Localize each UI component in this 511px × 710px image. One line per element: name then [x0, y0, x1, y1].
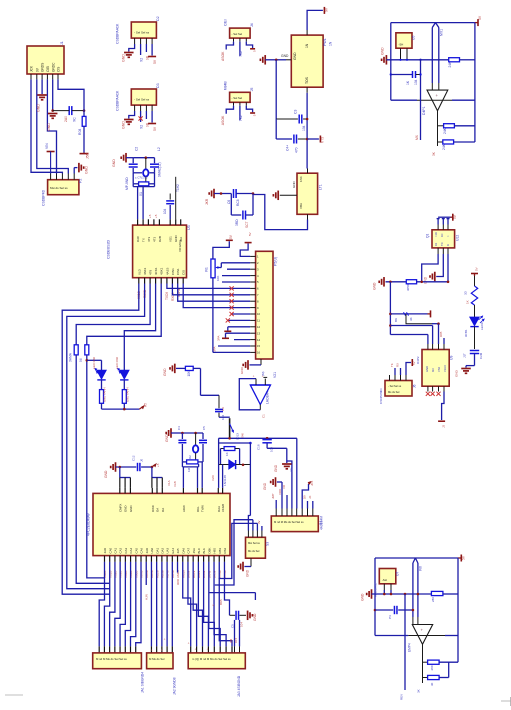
- svg-text:JCK: JCK: [30, 65, 34, 72]
- P5 gnd: [250, 359, 262, 365]
- svg-text:- Sel Sel: - Sel Sel: [232, 96, 243, 100]
- svg-text:5V: 5V: [475, 267, 479, 271]
- svg-text:J1: J1: [60, 41, 64, 45]
- S4 pin: [291, 509, 293, 517]
- svg-text:BK: BK: [394, 318, 398, 322]
- svg-text:4SK1: 4SK1: [160, 267, 164, 275]
- S3 gnd: [244, 558, 251, 566]
- wire U3.3 bundle: [76, 284, 150, 345]
- LED D4: [115, 357, 129, 380]
- connector P2: [42, 179, 83, 206]
- svg-text:M Ms ds Sel: M Ms ds Sel: [149, 657, 165, 661]
- S4 pin: [301, 509, 303, 517]
- U9 bottom pin: [443, 386, 445, 391]
- power bar R12: [471, 267, 479, 276]
- svg-text:D3: D3: [156, 83, 160, 88]
- power bar r12: [224, 330, 231, 332]
- svg-text:GND: GND: [124, 506, 128, 512]
- wire D3.1: [129, 111, 135, 119]
- power bar U9: [438, 421, 445, 428]
- wire bus3: [372, 593, 432, 595]
- svg-text:D4P1: D4P1: [422, 106, 426, 115]
- svg-text:X1A: X1A: [167, 480, 171, 486]
- J6 pin: [394, 375, 396, 381]
- U4 top pin: [196, 488, 200, 512]
- svg-text:C5: C5: [202, 426, 206, 430]
- node S: [389, 322, 440, 326]
- svg-text:GND: GND: [165, 434, 169, 442]
- regulator U8: [292, 173, 323, 214]
- svg-text:10K: 10K: [216, 276, 220, 281]
- U3 top pin: [152, 219, 156, 242]
- potentiometer W1: [205, 259, 221, 281]
- resistor R2: [133, 173, 154, 196]
- wire U4 to JA3: [204, 562, 215, 653]
- svg-text:D9: D9: [303, 495, 307, 499]
- label plus marks: [148, 214, 158, 218]
- node J: [86, 359, 89, 362]
- svg-text:C6: C6: [227, 200, 231, 204]
- U3 bottom pin: [154, 267, 158, 283]
- ground S4 GND: [263, 477, 282, 495]
- wire left rail: [390, 23, 392, 101]
- svg-text:DA1: DA1: [155, 547, 159, 553]
- node Q: [389, 281, 449, 284]
- svg-text:Ms ds Sel: Ms ds Sel: [388, 390, 400, 394]
- svg-text:D2: D2: [156, 16, 160, 21]
- S3 pin: [261, 531, 263, 538]
- svg-text:DBK: DBK: [207, 547, 211, 553]
- wire xtal rail: [133, 157, 154, 159]
- svg-text:JA3 4SIBGND: JA3 4SIBGND: [237, 675, 241, 697]
- P2 pin: [61, 174, 63, 180]
- svg-text:D2B: D2B: [158, 236, 162, 242]
- wire corner step1: [215, 520, 253, 585]
- svg-text:CA2: CA2: [119, 547, 123, 553]
- wire U3 to LCD: [178, 284, 250, 302]
- wire D2.1: [129, 44, 135, 52]
- wire U4 to JA3: [219, 562, 232, 653]
- wire speaker out: [259, 405, 261, 410]
- U3 top pin: [174, 219, 178, 242]
- wire S3.2: [252, 520, 254, 531]
- LCD connector P5: [256, 251, 278, 359]
- svg-text:T1H2: T1H2: [176, 184, 180, 192]
- U4 top pin: [156, 488, 160, 512]
- U8 gnd pin: [280, 194, 297, 196]
- wire to LED1: [87, 360, 102, 370]
- U8 out pin: [307, 214, 309, 219]
- svg-text:TXD9: TXD9: [165, 292, 169, 300]
- label ASOK J4: [221, 51, 225, 61]
- resistor R6: [448, 58, 475, 68]
- svg-text:H8S: H8S: [213, 548, 217, 554]
- svg-text:X2: X2: [140, 125, 144, 129]
- wire rail2 left: [374, 558, 376, 636]
- wire U4 to JA2: [161, 562, 163, 653]
- wire xtal2 down3: [201, 462, 203, 488]
- resistor R12 zigzag: [464, 276, 478, 305]
- svg-text:+: +: [163, 638, 167, 640]
- U3 top pin: [158, 219, 162, 242]
- svg-text:m (Q) M nd M Ms ds Sel Sel ss: m (Q) M nd M Ms ds Sel Sel ss: [192, 657, 231, 661]
- wire D3.3: [145, 111, 149, 127]
- S4 pin: [312, 509, 314, 517]
- wire stub REV: [400, 594, 406, 700]
- svg-text:5: 5: [253, 50, 257, 52]
- svg-text:XKGB: XKGB: [221, 504, 225, 512]
- U4 top pin: [161, 488, 165, 512]
- wire J4.3 hook: [246, 42, 252, 48]
- svg-text:-SH: -SH: [399, 43, 404, 47]
- wire J6.4 pwr: [406, 363, 411, 376]
- svg-text:16: 16: [257, 351, 261, 355]
- wire rail2 bottom: [375, 635, 408, 637]
- svg-text:CA4: CA4: [129, 547, 133, 553]
- label NB-GND: [125, 177, 129, 190]
- svg-text:4SA: 4SA: [192, 548, 196, 554]
- J1 pin 1: [30, 65, 34, 79]
- crystal Y1: [135, 158, 149, 182]
- svg-text:+: +: [252, 375, 256, 377]
- wire U4 to JA1: [110, 562, 115, 653]
- svg-text:CA0: CA0: [108, 547, 112, 553]
- svg-text:1M: 1M: [187, 467, 191, 472]
- wire D3.2: [140, 111, 144, 129]
- svg-text:104: 104: [414, 79, 418, 85]
- wire IR.2: [390, 326, 432, 345]
- wire R3 down: [76, 355, 109, 583]
- U4 top pin: [151, 488, 155, 512]
- wire xtal2 rail: [182, 432, 203, 434]
- U1 gnd pin: [286, 59, 291, 61]
- wire S4.3: [282, 484, 287, 509]
- wire xtal2 down1: [182, 467, 184, 488]
- P5 pin: [250, 325, 260, 329]
- wire U4 to JA1: [120, 562, 125, 653]
- P2 pin: [50, 174, 52, 180]
- U7 pins: [384, 584, 391, 594]
- svg-text:TD: TD: [440, 242, 444, 246]
- D2 pin: [134, 38, 136, 44]
- U12 top pin: [442, 225, 444, 230]
- wire S4.6 pwr: [302, 484, 308, 509]
- wire U4 to JA2: [156, 562, 158, 653]
- svg-text:GNDC: GNDC: [51, 62, 55, 72]
- svg-text:10K: 10K: [187, 370, 191, 377]
- svg-text:AMMBAIC: AMMBAIC: [374, 582, 378, 597]
- svg-text:GND: GND: [373, 282, 377, 290]
- power arrow S4: [308, 480, 314, 486]
- U4 top pin: [129, 488, 133, 512]
- svg-text:+: +: [206, 648, 210, 650]
- svg-text:14: 14: [257, 338, 261, 342]
- D2 pin: [145, 38, 147, 44]
- svg-text:4T3: 4T3: [152, 236, 156, 242]
- wire U4 to JA1: [130, 562, 135, 653]
- svg-text:CSDBP4D: CSDBP4D: [42, 189, 46, 206]
- U4 bottom pin: [150, 547, 154, 578]
- node C: [275, 59, 278, 62]
- svg-text:C4+: C4+: [286, 145, 290, 151]
- svg-text:C12: C12: [132, 455, 136, 461]
- U3 bottom pin: [149, 269, 153, 283]
- wire U3.1 bundle: [62, 284, 139, 595]
- wire U4 to JA1: [115, 562, 120, 653]
- connector D2: [116, 16, 161, 44]
- svg-text:U12: U12: [456, 235, 460, 241]
- wire mic bus: [386, 59, 448, 61]
- ground XTAL2 GND: [165, 428, 182, 442]
- wire U3.4 to LED2: [124, 284, 155, 371]
- svg-text:AM: AM: [229, 638, 233, 643]
- node M: [249, 442, 252, 445]
- wire left bus: [275, 60, 277, 119]
- capacitor C9: [390, 71, 422, 85]
- J6 pin: [400, 375, 402, 381]
- wire U4 to JA3: [198, 562, 208, 653]
- U3 top pin: [179, 219, 183, 242]
- svg-text:C2M: C2M: [479, 352, 483, 359]
- svg-text:W8: W8: [419, 566, 423, 571]
- capacitor C18: [257, 437, 287, 461]
- node O: [242, 464, 245, 467]
- wire U12.3: [447, 254, 449, 282]
- microcontroller U3: [107, 225, 192, 278]
- svg-text:GND: GND: [455, 369, 459, 377]
- svg-text:CIEI: CIEI: [46, 66, 50, 72]
- P5 pin: [250, 280, 259, 284]
- label 9MHZ: [158, 162, 162, 177]
- P5 pin: [250, 274, 259, 278]
- power bar P5: [245, 232, 252, 242]
- power bar row2: [428, 310, 431, 317]
- svg-text:PW1: PW1: [323, 38, 327, 46]
- svg-text:UA0: UA0: [150, 547, 154, 553]
- node P: [119, 466, 154, 469]
- wire U4 to JA1: [104, 562, 109, 653]
- resistor R4: [79, 345, 89, 362]
- svg-text:D2: D2: [188, 455, 192, 459]
- ground C15 GND: [455, 369, 471, 378]
- wire U4 vcc group2: [152, 467, 162, 488]
- svg-text:TX: TX: [142, 238, 146, 242]
- ground U7 GND: [361, 589, 372, 601]
- svg-text:U7: U7: [396, 572, 400, 576]
- connector D3: [116, 83, 161, 111]
- svg-text:3K: 3K: [432, 151, 436, 156]
- svg-text:JA2 9GND8: JA2 9GND8: [173, 677, 177, 695]
- J1 pin 4: [46, 66, 50, 80]
- J4 pin: [239, 38, 241, 42]
- U3 top pin: [169, 219, 173, 242]
- svg-text:9MHZ(11): 9MHZ(11): [158, 162, 162, 177]
- svg-text:104: 104: [270, 447, 274, 452]
- svg-text:TOS: TOS: [305, 76, 309, 84]
- node H: [399, 59, 408, 61]
- U9 top pin: [438, 344, 440, 350]
- U3 inner label: [178, 240, 182, 252]
- svg-text:CSDBPA4CK: CSDBPA4CK: [116, 90, 120, 111]
- svg-text:+: +: [436, 93, 439, 98]
- ground D2 GND: [122, 53, 134, 63]
- U3 bottom pin: [137, 268, 141, 283]
- J1 pin 6: [57, 67, 61, 80]
- P2 pin: [73, 174, 75, 180]
- wire J6.3: [396, 363, 401, 375]
- svg-text:L2: L2: [157, 147, 161, 151]
- U4 bottom pin: [181, 547, 185, 578]
- svg-text:+: +: [160, 649, 164, 651]
- connector S3: [246, 537, 270, 558]
- resistor R3: [69, 345, 79, 362]
- svg-text:CIS: CIS: [182, 270, 186, 275]
- J4 pin: [233, 38, 235, 42]
- svg-text:SCT: SCT: [245, 221, 249, 228]
- ground R5 GND: [163, 364, 175, 376]
- U4 bottom pin: [192, 548, 196, 578]
- svg-text:J4: J4: [250, 23, 254, 27]
- wire U1 gnd: [276, 54, 289, 60]
- wire S3.4: [257, 520, 262, 530]
- U12 top pin: [437, 225, 439, 230]
- wire S3.3: [256, 523, 258, 530]
- wire U4 stub2: [176, 562, 180, 585]
- U4 bottom pin: [213, 548, 217, 578]
- svg-text:J0: J0: [140, 459, 144, 463]
- wire inv stub: [415, 59, 422, 140]
- svg-text:GND: GND: [263, 482, 267, 490]
- wire J5.2: [239, 106, 243, 121]
- ground row1 GND: [373, 277, 385, 290]
- svg-text:- Sel Sel ss: - Sel Sel ss: [134, 98, 150, 102]
- sensor U12: [426, 230, 460, 248]
- svg-text:CSDBPMD: CSDBPMD: [379, 388, 383, 404]
- J1 pin 5: [51, 62, 55, 79]
- J5 pin: [233, 102, 235, 106]
- svg-text:5V: 5V: [412, 361, 416, 365]
- U4 bottom pin: [223, 547, 227, 578]
- no-connect X: [230, 306, 234, 310]
- J6 pin: [405, 375, 407, 381]
- resistor R9: [182, 448, 203, 472]
- wire D2.2: [140, 44, 144, 62]
- U4 bottom pin: [124, 547, 128, 578]
- svg-text:5V: 5V: [153, 59, 157, 64]
- node A: [51, 109, 54, 112]
- capacitor C12: [199, 426, 207, 448]
- svg-text:VO12OA: VO12OA: [178, 240, 182, 252]
- power bar pot: [226, 234, 233, 240]
- power bar J6: [412, 359, 416, 366]
- wire J1.5: [52, 79, 54, 110]
- wire S4.7: [303, 495, 308, 509]
- svg-text:GND: GND: [122, 121, 126, 129]
- wire U4 to JA1: [125, 562, 130, 653]
- svg-text:4PC2E8DMAV: 4PC2E8DMAV: [87, 512, 91, 536]
- node L: [228, 437, 268, 440]
- wire S4.2 gnd: [277, 482, 282, 509]
- P5 pin: [250, 351, 260, 355]
- no-connect X: [139, 116, 143, 120]
- svg-text:5V: 5V: [229, 234, 233, 239]
- regulator U1: [291, 35, 332, 87]
- J6 pin: [389, 375, 391, 381]
- capacitor C15: [463, 327, 484, 366]
- resistor R14: [423, 660, 459, 670]
- transistor Q2: [230, 418, 245, 440]
- wire opamp2 out: [417, 644, 423, 693]
- wire P5.13 pwr: [226, 333, 251, 337]
- border mark BL: [5, 694, 23, 696]
- wire U3 to LCD: [167, 284, 250, 289]
- resistor R5: [176, 366, 201, 376]
- power bar sensor: [451, 214, 458, 221]
- wire P5.10: [232, 313, 251, 315]
- P5 pin: [250, 255, 259, 259]
- node B: [83, 109, 86, 112]
- power bar P2: [45, 143, 55, 174]
- J5 pin: [239, 102, 241, 106]
- svg-text:4A5: 4A5: [176, 548, 180, 554]
- power bar P1: [80, 152, 90, 159]
- wire P2.5 gnd: [74, 168, 77, 174]
- svg-text:A5: A5: [144, 403, 148, 407]
- wire J5.1 hook: [226, 106, 233, 114]
- S4 pin: [281, 509, 283, 517]
- svg-text:XLD: XLD: [137, 268, 141, 275]
- U4 bottom pin: [218, 547, 222, 578]
- microphone U5: [396, 33, 416, 48]
- U4 bottom pin: [176, 548, 180, 578]
- svg-text:XLB: XLB: [173, 481, 177, 487]
- svg-text:4T3: 4T3: [147, 236, 151, 242]
- svg-text:9RO: 9RO: [176, 578, 180, 585]
- U4 bottom pin: [207, 547, 211, 578]
- wire rail2 top: [375, 557, 458, 559]
- node K: [123, 408, 126, 411]
- wire sensor pwr rail: [437, 217, 451, 224]
- wire S4.8: [308, 496, 313, 509]
- U4 top pin: [182, 488, 186, 512]
- svg-text:LAOBA4: LAOBA4: [266, 391, 270, 404]
- svg-text:11: 11: [257, 319, 260, 323]
- wire U4 to JA1: [99, 562, 104, 653]
- wire U1 VIN: [307, 10, 323, 30]
- svg-text:GND: GND: [112, 159, 116, 167]
- svg-text:CA1: CA1: [114, 547, 118, 553]
- svg-text:CA5: CA5: [134, 547, 138, 553]
- label out: [432, 151, 436, 156]
- ground S3 GND: [238, 562, 249, 577]
- diode D6: [211, 460, 250, 486]
- svg-text:+: +: [421, 628, 424, 633]
- svg-text:CIN1: CIN1: [171, 268, 175, 275]
- wire P5.15: [213, 346, 251, 352]
- svg-text:3RD: 3RD: [235, 219, 239, 226]
- ground GND1: [37, 95, 47, 112]
- svg-text:5V: 5V: [478, 15, 482, 20]
- svg-text:J6: J6: [413, 384, 417, 388]
- svg-text:UA3: UA3: [166, 547, 170, 553]
- S4 pin: [307, 509, 309, 517]
- wire P5.16 pot: [213, 351, 250, 353]
- wire top rail: [391, 22, 475, 24]
- svg-text:3V: 3V: [257, 520, 261, 524]
- ground GND3: [79, 163, 89, 174]
- power bar D3: [148, 124, 157, 132]
- wire U1 out: [306, 93, 308, 169]
